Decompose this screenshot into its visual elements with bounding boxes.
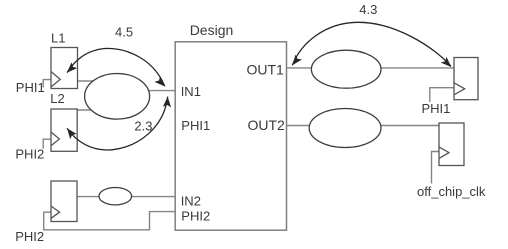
svg-text:L2: L2 bbox=[50, 91, 64, 106]
flip-flop FF4 (right top) bbox=[454, 58, 478, 100]
svg-text:PHI1: PHI1 bbox=[422, 101, 451, 116]
wire OUT2 to FF5 bbox=[287, 125, 439, 127]
Design block bbox=[175, 42, 286, 230]
svg-text:PHI2: PHI2 bbox=[181, 209, 210, 224]
delay arc 2.3 bbox=[67, 97, 168, 150]
arrowhead 4.3 right bbox=[441, 57, 454, 70]
svg-text:OUT1: OUT1 bbox=[247, 61, 285, 77]
FF4 clock chevron bbox=[454, 83, 465, 95]
delay arc 4.5 bbox=[67, 48, 165, 86]
wire PHI2 net to Design PHI2 port bbox=[44, 212, 176, 230]
wire PHI1 label stub to L1 clock bbox=[43, 80, 51, 88]
wire cloud to IN1 bbox=[117, 90, 176, 92]
arrowhead 2.3 right bbox=[163, 96, 172, 107]
L1 clock chevron bbox=[51, 72, 60, 88]
svg-text:off_chip_clk: off_chip_clk bbox=[417, 184, 486, 199]
arrowhead 2.3 left bbox=[64, 126, 77, 139]
svg-text:2.3: 2.3 bbox=[134, 119, 152, 134]
svg-text:L1: L1 bbox=[51, 31, 65, 46]
latch FF3 bbox=[51, 181, 77, 222]
svg-text:4.3: 4.3 bbox=[359, 2, 377, 17]
combinational cloud ellipse (right bottom) bbox=[309, 109, 381, 148]
arrowhead 4.3 left bbox=[289, 55, 302, 68]
wire L1 output to cloud bbox=[78, 80, 118, 82]
svg-text:PHI1: PHI1 bbox=[181, 118, 210, 133]
latch L2 bbox=[51, 109, 77, 151]
wire FF3 to IN2 bbox=[77, 196, 176, 198]
arrowhead 4.5 left bbox=[64, 62, 77, 75]
combinational cloud ellipse (left big) bbox=[85, 74, 150, 120]
flip-flop FF5 (right bottom) bbox=[439, 123, 464, 166]
svg-text:PHI2: PHI2 bbox=[15, 147, 44, 162]
delay arc 4.3 bbox=[292, 22, 451, 66]
combinational cloud ellipse (right top) bbox=[311, 50, 381, 88]
latch L1 bbox=[51, 48, 78, 89]
combinational cloud ellipse (left small) bbox=[99, 188, 132, 205]
svg-text:OUT2: OUT2 bbox=[248, 117, 286, 133]
L2 clock chevron bbox=[51, 132, 59, 146]
FF3 clock chevron bbox=[51, 206, 60, 218]
svg-text:PHI2: PHI2 bbox=[15, 229, 44, 244]
svg-text:Design: Design bbox=[190, 22, 234, 38]
wire PHI1 label stub to FF4 clock bbox=[430, 88, 454, 102]
wire off_chip_clk stub to FF5 clock bbox=[432, 152, 440, 184]
svg-text:PHI1: PHI1 bbox=[16, 80, 45, 95]
svg-text:IN2: IN2 bbox=[181, 193, 201, 208]
wire L2 output to cloud bbox=[77, 109, 117, 111]
svg-text:4.5: 4.5 bbox=[115, 25, 133, 40]
wire OUT1 to FF4 bbox=[287, 67, 454, 69]
arrowhead 4.5 right bbox=[154, 76, 167, 89]
svg-text:IN1: IN1 bbox=[181, 84, 201, 99]
FF5 clock chevron bbox=[439, 147, 449, 159]
wire PHI2 label stub to L2 clock bbox=[43, 139, 51, 148]
